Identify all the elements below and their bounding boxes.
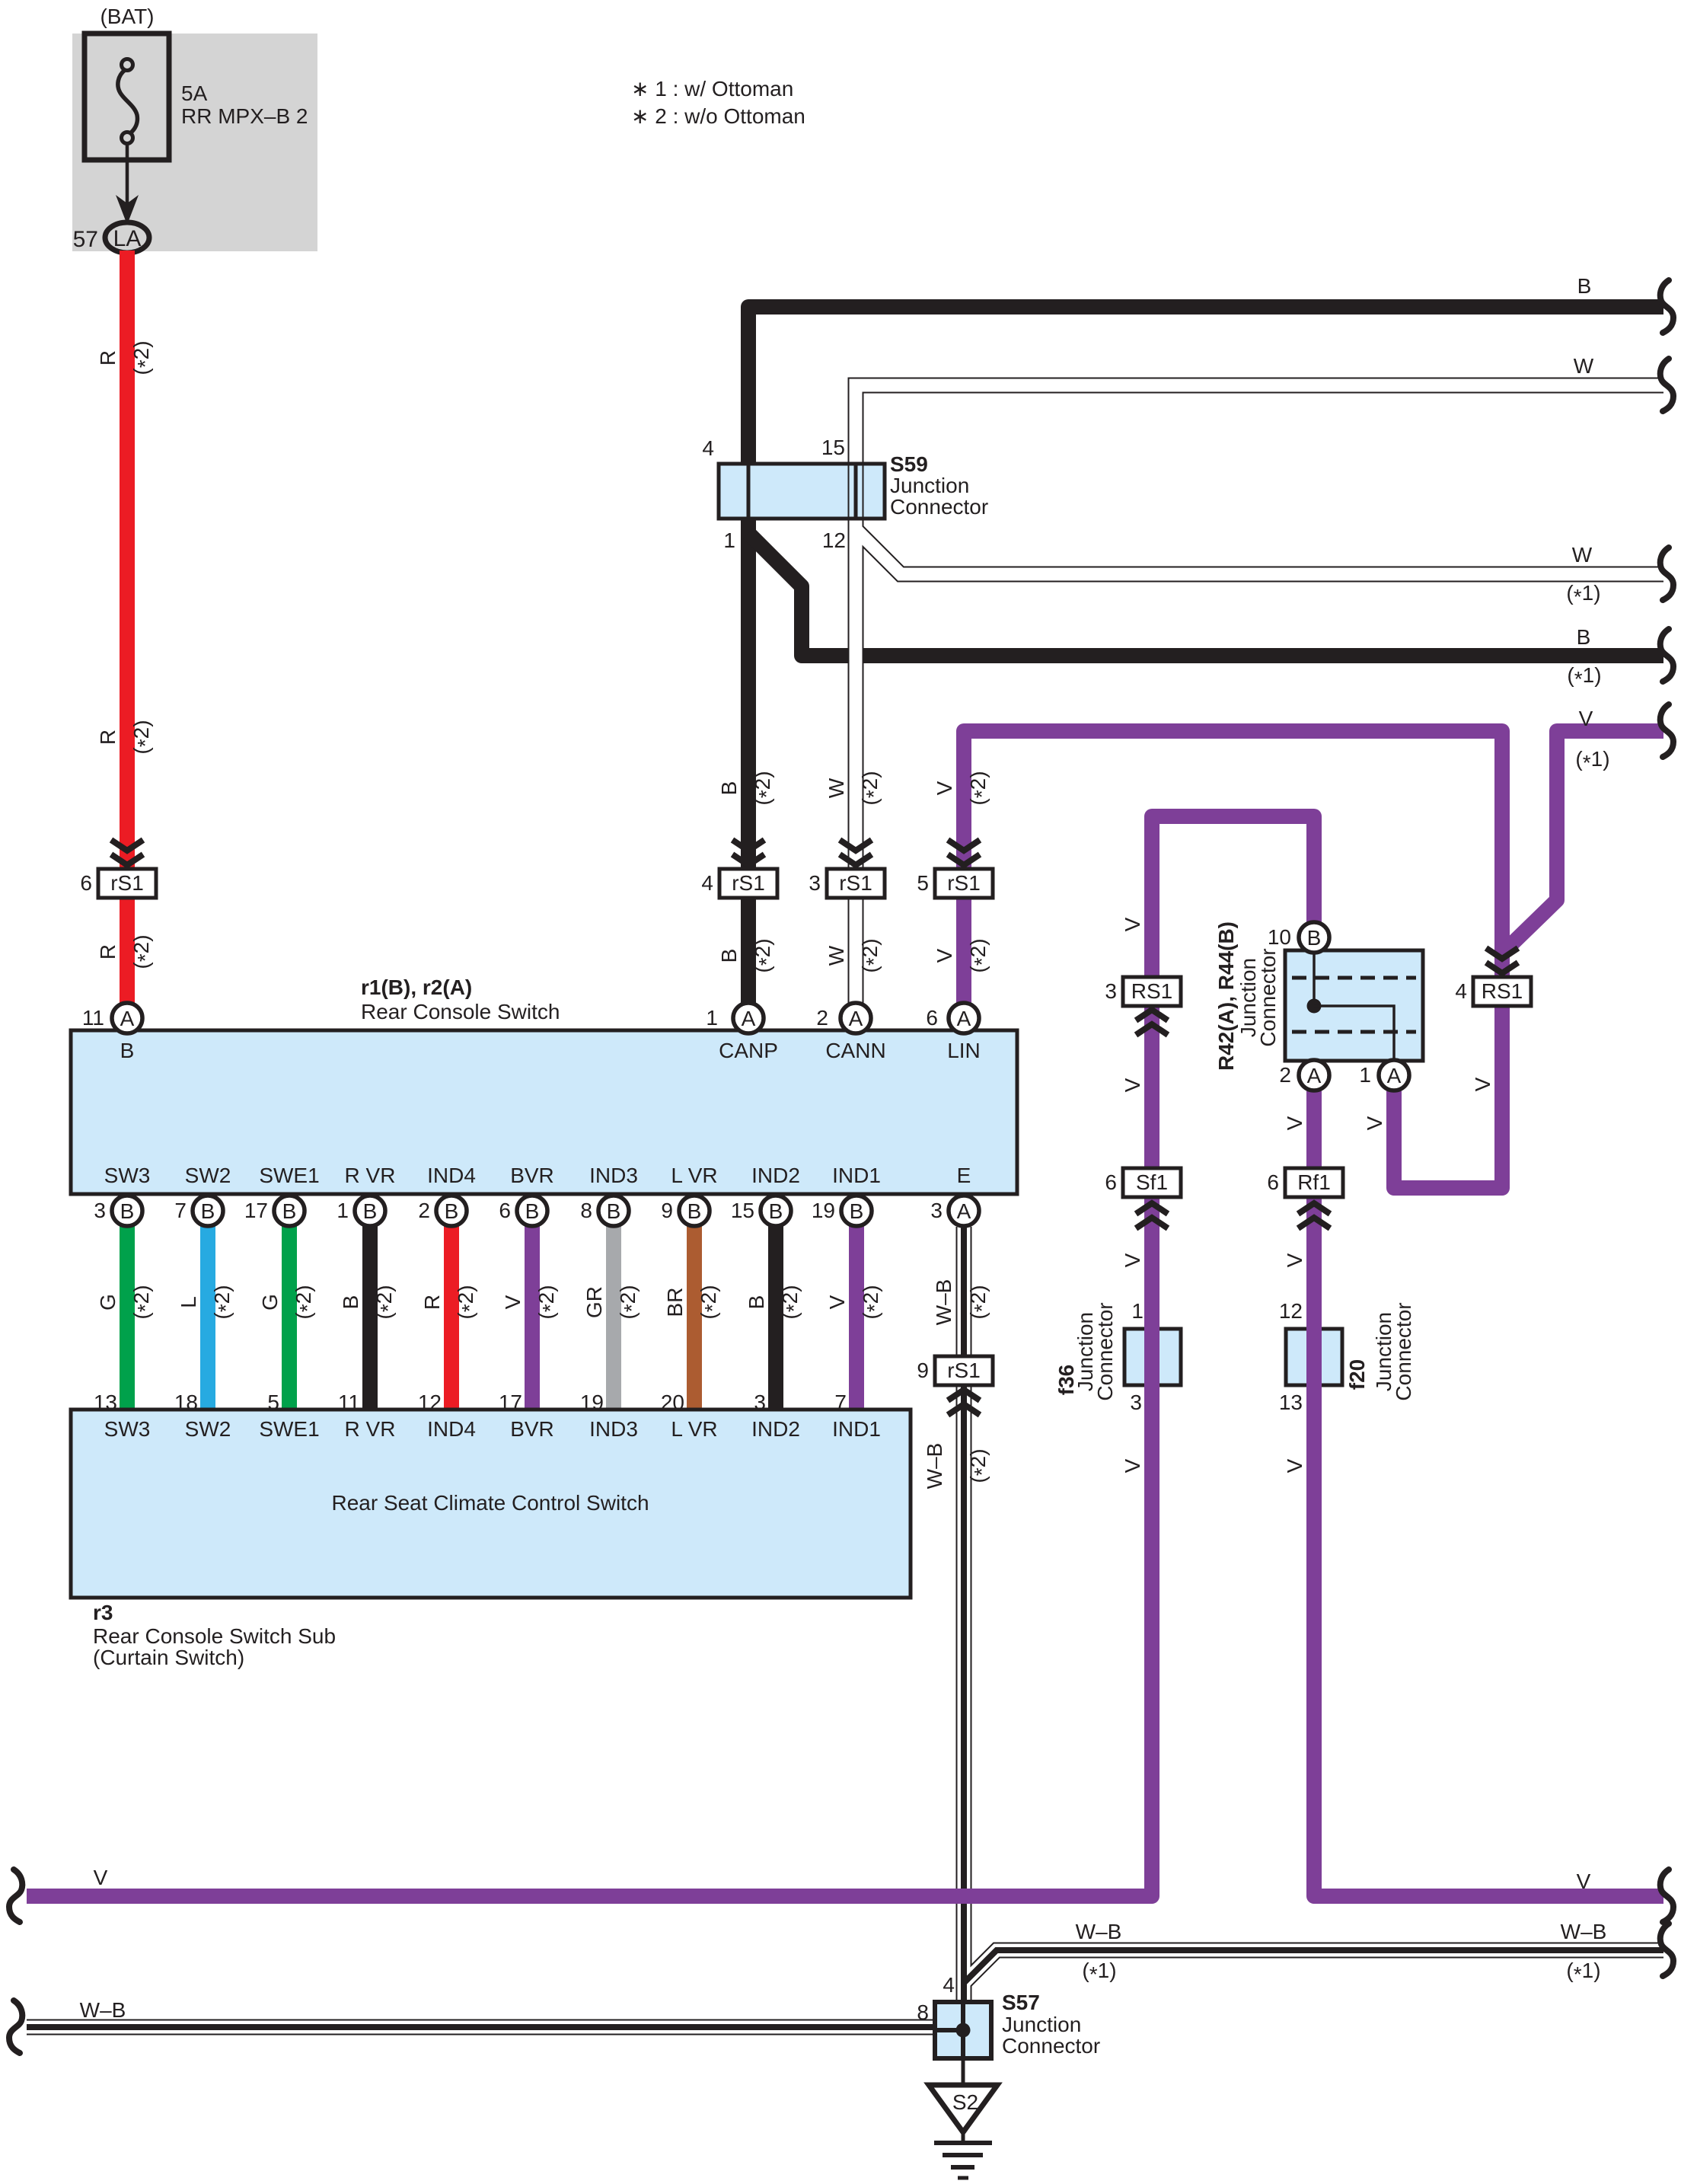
wire V rail redraw over W-B crossing [914, 1889, 1152, 1904]
svg-text:V: V [825, 1295, 849, 1309]
svg-text:10: 10 [1268, 925, 1291, 949]
svg-text:V: V [933, 781, 956, 795]
svg-text:Rear Seat Climate Control Swit: Rear Seat Climate Control Switch [331, 1491, 649, 1515]
svg-text:(Curtain Switch): (Curtain Switch) [93, 1646, 244, 1669]
svg-text:(BAT): (BAT) [100, 5, 154, 28]
svg-text:B: B [1577, 625, 1591, 649]
connector RS1-3 [1123, 977, 1181, 1006]
wire BR (*2) L VR [687, 1226, 702, 1413]
junction connector f36 [1124, 1329, 1181, 1385]
svg-text:IND2: IND2 [751, 1164, 800, 1187]
svg-text:V: V [1121, 1458, 1144, 1473]
svg-text:19: 19 [812, 1199, 835, 1222]
wire V over f20 [1306, 1325, 1322, 1389]
svg-text:SW3: SW3 [104, 1417, 151, 1441]
svg-text:RS1: RS1 [1131, 979, 1172, 1003]
svg-text:Rear Console Switch Sub: Rear Console Switch Sub [93, 1624, 336, 1648]
svg-text:A: A [957, 1007, 971, 1030]
svg-text:rS1: rS1 [947, 871, 981, 895]
svg-text:8: 8 [917, 2000, 929, 2024]
svg-text:S57: S57 [1002, 1991, 1040, 2014]
pin 2 A CANN [840, 1003, 871, 1033]
svg-text:V: V [94, 1866, 108, 1889]
svg-text:(*2): (*2) [129, 1285, 157, 1319]
svg-text:S59: S59 [890, 452, 928, 476]
svg-text:Connector: Connector [1093, 1302, 1117, 1400]
pin 57 LA oval [105, 222, 149, 253]
svg-text:L VR: L VR [671, 1164, 717, 1187]
svg-text:V: V [1121, 1078, 1144, 1092]
arrow into pin LA [116, 195, 139, 225]
R42 pin 1 A [1379, 1060, 1409, 1090]
wire W-B from pin E to S57 pin 4 with left run and W-B (*1) branch [964, 1950, 1663, 1983]
svg-text:A: A [849, 1007, 863, 1030]
svg-text:W: W [1574, 354, 1594, 378]
svg-text:(*2): (*2) [292, 1285, 319, 1319]
svg-text:57: 57 [73, 227, 98, 252]
svg-text:B: B [120, 1039, 135, 1062]
svg-text:BVR: BVR [510, 1164, 554, 1187]
svg-text:12: 12 [1279, 1299, 1303, 1323]
svg-text:B: B [120, 1199, 135, 1223]
svg-text:V: V [1577, 1869, 1591, 1893]
svg-text:(*2): (*2) [616, 1285, 643, 1319]
svg-text:R42(A), R44(B): R42(A), R44(B) [1214, 921, 1238, 1071]
svg-text:B: B [339, 1295, 362, 1310]
svg-text:(*2): (*2) [534, 1285, 562, 1319]
svg-text:B: B [607, 1199, 621, 1223]
pin 11 A [112, 1003, 142, 1033]
svg-text:15: 15 [821, 436, 845, 459]
pin 17 B SWE1 [274, 1196, 305, 1226]
svg-text:6: 6 [926, 1006, 938, 1030]
svg-text:(*1): (*1) [1566, 1959, 1600, 1986]
connector Sf1 [1123, 1168, 1181, 1197]
mating arrows above rS1-5 [948, 840, 980, 851]
wire S57 to ground [962, 2058, 965, 2087]
svg-text:3: 3 [930, 1199, 943, 1222]
curl wire V (*1) right [1660, 704, 1673, 757]
svg-text:Sf1: Sf1 [1136, 1170, 1168, 1194]
curl wire V bottom right [1660, 1869, 1673, 1922]
wire fuse output [126, 143, 129, 207]
svg-text:rS1: rS1 [947, 1359, 981, 1382]
wire GR (*2) IND3 [606, 1226, 621, 1413]
curl wire B (*1) right [1660, 629, 1673, 682]
svg-text:R: R [420, 1295, 444, 1310]
svg-text:5: 5 [917, 871, 929, 895]
mating arrows below rS1-9 [948, 1404, 980, 1415]
svg-text:LIN: LIN [947, 1039, 981, 1062]
svg-text:B: B [717, 949, 741, 963]
svg-text:B: B [1307, 926, 1322, 950]
svg-text:W: W [825, 945, 848, 966]
svg-text:1: 1 [706, 1006, 718, 1030]
R42 pin 2 A [1299, 1060, 1329, 1090]
wire B (*1) branch from S59 pin 1 [748, 533, 1663, 656]
svg-text:7: 7 [174, 1199, 187, 1222]
svg-text:IND3: IND3 [589, 1164, 638, 1187]
svg-text:V: V [1121, 1253, 1144, 1267]
svg-text:rS1: rS1 [839, 871, 872, 895]
svg-text:2: 2 [816, 1006, 828, 1030]
svg-text:Junction: Junction [890, 474, 969, 497]
svg-text:SWE1: SWE1 [259, 1164, 319, 1187]
curl wire W right [1660, 359, 1673, 411]
svg-text:8: 8 [580, 1199, 592, 1222]
svg-text:∗ 2 : w/o Ottoman: ∗ 2 : w/o Ottoman [631, 104, 805, 128]
connector rS1-9 [935, 1356, 993, 1385]
svg-text:(*2): (*2) [778, 1285, 805, 1319]
junction connector f20 [1286, 1329, 1342, 1385]
svg-text:B: B [717, 781, 741, 796]
svg-text:G: G [96, 1294, 120, 1311]
svg-text:B: B [363, 1199, 378, 1223]
svg-text:R VR: R VR [345, 1164, 396, 1187]
svg-text:6: 6 [499, 1199, 511, 1222]
svg-text:W–B: W–B [932, 1279, 955, 1326]
svg-text:E: E [957, 1164, 971, 1187]
wire B (*2) IND2 [768, 1226, 783, 1413]
svg-text:f20: f20 [1345, 1359, 1369, 1390]
curl wire W-B left [9, 2000, 22, 2053]
svg-text:V: V [1471, 1077, 1494, 1091]
svg-text:Rf1: Rf1 [1297, 1170, 1331, 1194]
svg-text:3: 3 [1130, 1391, 1142, 1414]
svg-text:BVR: BVR [510, 1417, 554, 1441]
svg-text:2: 2 [1279, 1063, 1291, 1087]
svg-text:R: R [96, 730, 120, 745]
svg-text:R VR: R VR [345, 1417, 396, 1441]
wire L (*2) SW2 [200, 1226, 215, 1413]
svg-text:A: A [1307, 1064, 1322, 1087]
svg-text:(*1): (*1) [1566, 581, 1600, 608]
svg-text:GR: GR [582, 1286, 606, 1318]
curl wire V left [9, 1869, 22, 1922]
connector RS1-4 [1473, 977, 1531, 1006]
wire R (*2) from fuse LA to rear console switch pin 11 [120, 251, 135, 1004]
svg-text:Connector: Connector [890, 495, 988, 519]
wire V from R42 pin 2 via Rf1 and f20 to V rail and right edge [1314, 1090, 1663, 1896]
svg-text:9: 9 [917, 1359, 929, 1382]
svg-text:V: V [1579, 707, 1593, 730]
mating arrows below Rf1 [1298, 1218, 1330, 1228]
svg-text:A: A [1387, 1064, 1402, 1087]
svg-text:SWE1: SWE1 [259, 1417, 319, 1441]
mating arrows above RS1-4 [1486, 948, 1518, 959]
svg-text:S2: S2 [952, 2090, 978, 2114]
svg-text:1: 1 [1131, 1299, 1144, 1323]
pin 2 B IND4 [436, 1196, 467, 1226]
svg-text:(*2): (*2) [751, 771, 778, 805]
wire V (*2) BVR [525, 1226, 540, 1413]
svg-text:RR MPX–B 2: RR MPX–B 2 [181, 104, 308, 128]
junction connector S57 [935, 2002, 991, 2058]
svg-text:V: V [1283, 1253, 1306, 1267]
svg-text:(*2): (*2) [966, 1285, 994, 1319]
svg-text:17: 17 [244, 1199, 268, 1222]
svg-text:13: 13 [1279, 1391, 1303, 1414]
svg-text:CANP: CANP [719, 1039, 778, 1062]
svg-text:V: V [501, 1295, 525, 1309]
wire V (*2) IND1 [849, 1226, 864, 1413]
svg-text:B: B [282, 1199, 297, 1223]
svg-text:1: 1 [723, 528, 735, 552]
svg-text:IND4: IND4 [427, 1164, 476, 1187]
svg-text:(*2): (*2) [966, 938, 994, 972]
mating arrows above rS1-6 [111, 840, 143, 851]
curl wire W-B (*1) right [1660, 1924, 1673, 1976]
svg-text:(*2): (*2) [210, 1285, 238, 1319]
connector rS1-4 [719, 869, 777, 898]
svg-text:IND1: IND1 [832, 1417, 881, 1441]
svg-text:IND3: IND3 [589, 1417, 638, 1441]
svg-text:6: 6 [1267, 1170, 1279, 1194]
svg-text:12: 12 [822, 528, 846, 552]
svg-text:V: V [1283, 1116, 1306, 1130]
svg-text:(*2): (*2) [697, 1285, 724, 1319]
svg-text:W–B: W–B [923, 1443, 946, 1490]
svg-text:B: B [201, 1199, 215, 1223]
svg-text:LA: LA [113, 226, 142, 251]
rear console switch r1(B) r2(A) [71, 1030, 1017, 1194]
svg-text:IND1: IND1 [832, 1164, 881, 1187]
svg-text:3: 3 [94, 1199, 106, 1222]
svg-text:V: V [933, 948, 956, 963]
svg-text:(*2): (*2) [372, 1285, 400, 1319]
svg-text:3: 3 [1105, 979, 1117, 1003]
svg-text:r3: r3 [93, 1601, 113, 1624]
svg-text:IND4: IND4 [427, 1417, 476, 1441]
svg-text:W: W [1572, 543, 1593, 567]
svg-text:BR: BR [663, 1288, 687, 1317]
wire R (*2) IND4 [444, 1226, 459, 1413]
svg-text:SW2: SW2 [185, 1417, 231, 1441]
svg-text:(*1): (*1) [1082, 1959, 1116, 1986]
R42 pin 10 B [1299, 922, 1329, 953]
connector rS1-3w [827, 869, 885, 898]
svg-text:B: B [525, 1199, 540, 1223]
svg-text:A: A [957, 1199, 971, 1223]
svg-text:A: A [120, 1007, 135, 1030]
svg-text:5A: 5A [181, 81, 208, 105]
svg-text:B: B [445, 1199, 459, 1223]
svg-text:R: R [96, 350, 120, 366]
mating arrows above rS1-4 [732, 840, 764, 851]
wire B (*2) R VR [362, 1226, 378, 1413]
mating arrows above rS1-3w [840, 840, 872, 851]
svg-text:Junction: Junction [1002, 2013, 1081, 2036]
wire W from S59 pin 15 to CANN pin 2 with W (*1) branch from S59 pin 12 [856, 529, 1663, 574]
connector rS1-5 [935, 869, 993, 898]
wire G (*2) SW3 [120, 1226, 135, 1413]
svg-text:Connector: Connector [1392, 1302, 1415, 1400]
connector Rf1 [1285, 1168, 1343, 1197]
svg-text:W–B: W–B [1561, 1920, 1607, 1943]
svg-text:(*2): (*2) [751, 938, 778, 972]
svg-text:(*2): (*2) [966, 771, 994, 805]
svg-text:L: L [177, 1296, 200, 1308]
svg-text:(*2): (*2) [454, 1285, 481, 1319]
pin 1 A CANP [733, 1003, 764, 1033]
svg-text:Connector: Connector [1256, 948, 1280, 1046]
pin 7 B SW2 [193, 1196, 223, 1226]
pin 6 A LIN [949, 1003, 979, 1033]
pin 6 B BVR [517, 1196, 547, 1226]
svg-text:3: 3 [809, 871, 821, 895]
svg-text:rS1: rS1 [110, 871, 144, 895]
svg-text:6: 6 [1105, 1170, 1117, 1194]
svg-text:G: G [258, 1294, 282, 1311]
mating arrows below RS1-3 [1136, 1024, 1168, 1035]
svg-text:4: 4 [702, 436, 714, 460]
svg-text:1: 1 [337, 1199, 349, 1222]
wire V over f36 [1144, 1325, 1159, 1389]
svg-text:B: B [1577, 274, 1592, 298]
wire B CAN bus to S59 pin 4 and CANP pin 1 [748, 307, 1663, 1004]
pin 3 B SW3 [112, 1196, 142, 1226]
curl wire B right [1660, 280, 1673, 333]
svg-text:4: 4 [943, 1973, 955, 1997]
svg-text:2: 2 [418, 1199, 430, 1222]
pin 3 A E [949, 1196, 979, 1226]
svg-text:B: B [769, 1199, 783, 1223]
svg-text:6: 6 [80, 871, 92, 895]
junction connector S59 [719, 464, 885, 519]
svg-text:4: 4 [701, 871, 713, 895]
svg-text:Connector: Connector [1002, 2034, 1100, 2058]
pin 8 B IND3 [598, 1196, 629, 1226]
svg-text:(*1): (*1) [1575, 747, 1609, 774]
svg-text:(*2): (*2) [966, 1448, 994, 1483]
pin 9 B L VR [679, 1196, 710, 1226]
svg-text:4: 4 [1455, 979, 1467, 1003]
wire V from RS1 3 up to R42 pin 10 [1152, 816, 1314, 977]
svg-text:15: 15 [731, 1199, 754, 1222]
svg-text:(*2): (*2) [858, 938, 885, 972]
svg-text:V: V [1121, 917, 1144, 931]
svg-text:rS1: rS1 [732, 871, 765, 895]
battery feed block (BAT) [72, 34, 317, 251]
svg-text:B: B [745, 1295, 768, 1310]
svg-text:11: 11 [82, 1006, 104, 1030]
fuse 5A RR MPX-B 2 [85, 34, 169, 160]
svg-text:(*2): (*2) [129, 720, 157, 754]
svg-text:(*2): (*2) [129, 340, 157, 375]
svg-text:V: V [1283, 1458, 1306, 1473]
pin 15 B IND2 [761, 1196, 791, 1226]
curl wire W (*1) right [1660, 548, 1673, 600]
svg-text:(*2): (*2) [129, 934, 157, 969]
svg-text:W: W [825, 777, 848, 798]
pin 1 B R VR [355, 1196, 385, 1226]
svg-text:IND2: IND2 [751, 1417, 800, 1441]
svg-text:Rear Console Switch: Rear Console Switch [361, 1000, 560, 1023]
svg-text:∗ 1 : w/ Ottoman: ∗ 1 : w/ Ottoman [631, 77, 793, 101]
svg-text:B: B [850, 1199, 864, 1223]
svg-text:(*2): (*2) [858, 771, 885, 805]
ground S2 [929, 2085, 997, 2132]
svg-text:CANN: CANN [825, 1039, 885, 1062]
mating arrows below Sf1 [1136, 1218, 1168, 1228]
svg-text:A: A [742, 1007, 756, 1030]
junction connector R42(A) R44(B) [1285, 950, 1423, 1061]
svg-text:SW2: SW2 [185, 1164, 231, 1187]
svg-text:9: 9 [661, 1199, 673, 1222]
svg-text:V: V [1363, 1116, 1386, 1130]
svg-text:B: B [687, 1199, 702, 1223]
svg-text:(*1): (*1) [1567, 663, 1601, 691]
svg-text:1: 1 [1359, 1063, 1371, 1087]
connector rS1-6 [98, 869, 156, 898]
wire V from RS1 3 down via Sf1 and f36 to V rail and left edge [27, 977, 1152, 1896]
svg-text:W–B: W–B [80, 1998, 126, 2022]
svg-text:R: R [96, 944, 120, 959]
pin 19 B IND1 [841, 1196, 872, 1226]
wire V (*1) branch right [1503, 731, 1663, 953]
wire V from LIN pin 6 via RS1 4 to R42 pin 1 [964, 731, 1502, 1188]
svg-text:(*2): (*2) [859, 1285, 886, 1319]
svg-text:RS1: RS1 [1482, 979, 1523, 1003]
svg-text:L VR: L VR [671, 1417, 717, 1441]
wire G (*2) SWE1 [282, 1226, 297, 1413]
rear seat climate control switch r3 [71, 1410, 911, 1598]
svg-text:W–B: W–B [1076, 1920, 1122, 1943]
svg-text:SW3: SW3 [104, 1164, 151, 1187]
svg-text:r1(B), r2(A): r1(B), r2(A) [361, 975, 472, 999]
